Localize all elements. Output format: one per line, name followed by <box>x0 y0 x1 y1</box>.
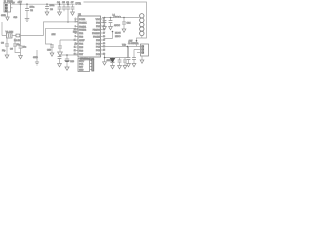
wire <box>11 3 75 5</box>
IC U1 left pin stubs <box>76 19 78 54</box>
junction <box>59 3 61 5</box>
svg-text:16M: 16M <box>52 34 56 36</box>
svg-text:Y1 16M: Y1 16M <box>6 31 14 33</box>
wire net <box>36 50 38 62</box>
svg-text:GND: GND <box>1 15 6 17</box>
wire <box>20 4 22 46</box>
ground <box>58 52 63 56</box>
junction <box>104 17 106 19</box>
wire <box>141 56 143 60</box>
IC U1 (MCU) <box>78 13 101 61</box>
ground <box>123 66 127 69</box>
svg-text:PB3/MO: PB3/MO <box>92 33 100 35</box>
capacitor C18 electrolytic <box>65 55 75 67</box>
connector J3 <box>128 42 149 56</box>
wire hook <box>104 32 113 39</box>
svg-text:PD0/RX: PD0/RX <box>79 22 87 24</box>
svg-text:PB2/SS: PB2/SS <box>93 29 101 31</box>
capacitor C4 <box>57 2 61 12</box>
ground <box>50 53 54 56</box>
ground <box>132 64 136 67</box>
junction <box>127 46 129 48</box>
svg-text:GND: GND <box>33 57 38 59</box>
capacitor C16 <box>123 58 127 66</box>
svg-text:11: 11 <box>74 47 76 49</box>
capacitor C3 <box>45 4 55 12</box>
capacitor C5 <box>62 2 66 11</box>
junction <box>20 3 22 5</box>
capacitor C21 <box>71 2 75 12</box>
ground <box>111 66 115 69</box>
ground <box>71 12 75 15</box>
svg-text:AVCC: AVCC <box>114 24 120 27</box>
svg-text:100n: 100n <box>50 5 56 7</box>
wire coil to J2 <box>137 38 142 47</box>
capacitor C19 <box>127 47 131 64</box>
svg-text:17: 17 <box>103 33 105 35</box>
capacitor C8 <box>1 38 9 55</box>
ground <box>19 56 23 59</box>
wire AREF <box>60 40 78 46</box>
svg-text:MOSI: MOSI <box>115 33 121 35</box>
svg-text:PB7/X2: PB7/X2 <box>79 29 87 31</box>
svg-text:PB6/X1: PB6/X1 <box>79 26 87 28</box>
svg-text:PB4/MI: PB4/MI <box>93 36 100 38</box>
ground <box>109 27 113 30</box>
ground <box>45 12 49 15</box>
svg-text:19: 19 <box>103 40 105 42</box>
wire <box>104 58 106 62</box>
wire <box>84 2 147 38</box>
junction <box>26 3 28 5</box>
svg-text:9: 9 <box>75 26 76 28</box>
connector J1 <box>4 0 14 12</box>
ground <box>103 27 107 30</box>
svg-text:J2 SERIAL: J2 SERIAL <box>128 42 139 45</box>
ground <box>25 19 30 22</box>
capacitor C20 <box>132 50 136 64</box>
svg-text:18: 18 <box>103 36 105 38</box>
ground <box>103 62 107 65</box>
junction <box>67 3 69 5</box>
junction <box>66 54 68 56</box>
IC U1 pin names right column <box>92 19 101 56</box>
junction <box>104 57 106 59</box>
svg-text:AREF: AREF <box>79 39 85 42</box>
junction <box>136 40 138 42</box>
svg-text:2: 2 <box>75 21 76 23</box>
ground <box>65 67 69 70</box>
wire <box>11 7 13 9</box>
svg-text:PC6/R: PC6/R <box>79 19 86 21</box>
diode D1 <box>110 58 114 66</box>
resistor R2 <box>14 34 44 42</box>
wire <box>1 22 3 36</box>
capacitor C12 <box>103 18 107 27</box>
capacitor C14 <box>122 18 131 30</box>
junction <box>123 17 125 19</box>
svg-text:MISO: MISO <box>79 60 85 62</box>
junction <box>112 31 114 33</box>
wire lower mid <box>60 54 79 56</box>
capacitor C11 <box>58 46 62 52</box>
junction <box>46 3 48 5</box>
ground <box>122 29 126 32</box>
svg-text:25: 25 <box>103 50 105 52</box>
svg-text:DTR: DTR <box>76 2 81 6</box>
wire down right <box>127 47 129 58</box>
wire XTAL1 <box>44 22 79 36</box>
capacitor C15 <box>118 58 122 66</box>
ground <box>127 64 131 67</box>
coil L2 antenna <box>139 14 145 38</box>
ground <box>5 55 9 58</box>
wire to J3 <box>102 46 141 48</box>
wire bottom bus <box>103 54 128 58</box>
wire <box>137 52 141 54</box>
ground <box>35 62 39 65</box>
IC U1 pin numbers <box>74 19 76 56</box>
svg-text:SCK: SCK <box>79 63 84 65</box>
svg-text:100n: 100n <box>30 7 36 9</box>
wire VCC bus right <box>102 17 139 19</box>
connector ICSP <box>78 59 94 72</box>
svg-text:5: 5 <box>75 36 76 38</box>
ground <box>140 60 144 63</box>
capacitor C10 <box>47 44 54 53</box>
junction <box>67 21 69 23</box>
ground <box>58 64 62 67</box>
junction <box>110 17 112 19</box>
capacitor C17 <box>58 55 62 64</box>
crystal Y1 <box>2 31 16 38</box>
wire <box>134 49 141 51</box>
capacitor C13 <box>109 18 113 27</box>
svg-text:VCC: VCC <box>96 19 101 21</box>
wire XTAL2 <box>46 28 79 44</box>
ground <box>118 66 122 69</box>
capacitor C2 <box>25 4 35 18</box>
svg-text:MISO: MISO <box>115 36 121 38</box>
svg-text:12: 12 <box>74 50 76 52</box>
svg-text:+5V: +5V <box>18 1 23 4</box>
capacitor C9 <box>10 38 21 53</box>
inductor L1 <box>113 15 121 18</box>
capacitor C7 <box>19 46 27 56</box>
svg-text:GND: GND <box>79 69 84 71</box>
IC U1 pin names left column <box>79 19 87 56</box>
svg-text:23: 23 <box>103 43 105 45</box>
capacitor C6 <box>66 2 70 22</box>
ground <box>1 12 18 20</box>
ground <box>58 12 62 15</box>
IC U1 right pin stubs <box>101 19 103 54</box>
svg-text:21: 21 <box>74 40 76 42</box>
